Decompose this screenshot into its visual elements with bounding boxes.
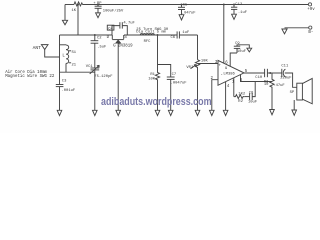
svg-text:21: 21	[72, 63, 77, 67]
svg-text:C2: C2	[97, 36, 102, 40]
svg-text:C6: C6	[171, 36, 176, 40]
svg-text:LM386: LM386	[223, 72, 235, 76]
svg-text:VC1: VC1	[86, 65, 94, 69]
svg-text:100uF/25V: 100uF/25V	[103, 9, 124, 14]
svg-text:10uF: 10uF	[237, 50, 247, 54]
svg-text:SP: SP	[290, 91, 295, 95]
svg-text:Dia Coil 5 mm: Dia Coil 5 mm	[136, 30, 166, 35]
svg-text:10uF: 10uF	[248, 100, 258, 104]
svg-text:.0047uF: .0047uF	[171, 82, 188, 86]
svg-text:220uF: 220uF	[280, 76, 292, 80]
svg-text:C8: C8	[249, 91, 254, 95]
svg-text:C7: C7	[172, 73, 177, 77]
svg-text:C4: C4	[108, 27, 113, 31]
svg-text:2N3819: 2N3819	[118, 44, 133, 48]
svg-text:VR2: VR2	[186, 66, 194, 70]
svg-text:+9v: +9v	[307, 8, 315, 12]
svg-text:.47uF: .47uF	[273, 84, 285, 88]
svg-text:Magnetic Wire SWG 22: Magnetic Wire SWG 22	[5, 74, 55, 79]
svg-text:1K2: 1K2	[238, 93, 246, 97]
svg-text:C5: C5	[183, 3, 188, 7]
svg-text:adibaduts.wordpress.com: adibaduts.wordpress.com	[101, 96, 212, 108]
svg-text:75-120pF: 75-120pF	[94, 75, 113, 79]
svg-text:B-: B-	[308, 31, 313, 35]
svg-text:C10: C10	[255, 76, 263, 80]
svg-text:.1uF: .1uF	[238, 11, 248, 15]
svg-text:.047uF: .047uF	[182, 11, 196, 15]
svg-text:C9: C9	[235, 42, 240, 46]
svg-text:C12: C12	[235, 3, 243, 7]
svg-text:R2: R2	[238, 100, 243, 104]
svg-text:1K: 1K	[72, 9, 77, 13]
svg-text:.001uF: .001uF	[62, 89, 76, 93]
svg-text:10K: 10K	[148, 77, 156, 81]
svg-text:10: 10	[264, 83, 269, 87]
svg-text:10K: 10K	[201, 60, 209, 64]
svg-text:C3: C3	[62, 80, 67, 84]
svg-text:.5uF: .5uF	[97, 46, 107, 50]
svg-text:4.7uF: 4.7uF	[123, 22, 135, 26]
svg-text:RFC: RFC	[144, 40, 152, 44]
svg-text:1uF: 1uF	[182, 31, 190, 35]
svg-text:C11: C11	[281, 65, 289, 69]
svg-text:S1: S1	[72, 51, 77, 55]
svg-text:ANT: ANT	[33, 45, 42, 51]
